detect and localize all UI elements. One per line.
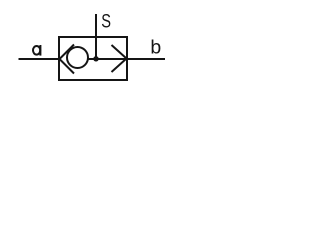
left seat	[60, 45, 75, 74]
svg-text:b: b	[150, 37, 161, 59]
wire: output lead b	[127, 58, 165, 60]
right seat	[112, 45, 127, 72]
svg-text:S: S	[101, 11, 111, 32]
valve body (box)	[59, 37, 127, 80]
wire: ball to right seat	[88, 58, 127, 60]
wire: output S	[95, 14, 97, 59]
junction dot	[93, 56, 98, 61]
wire: input lead a	[19, 58, 60, 60]
ball	[67, 47, 88, 68]
label a	[33, 45, 40, 56]
